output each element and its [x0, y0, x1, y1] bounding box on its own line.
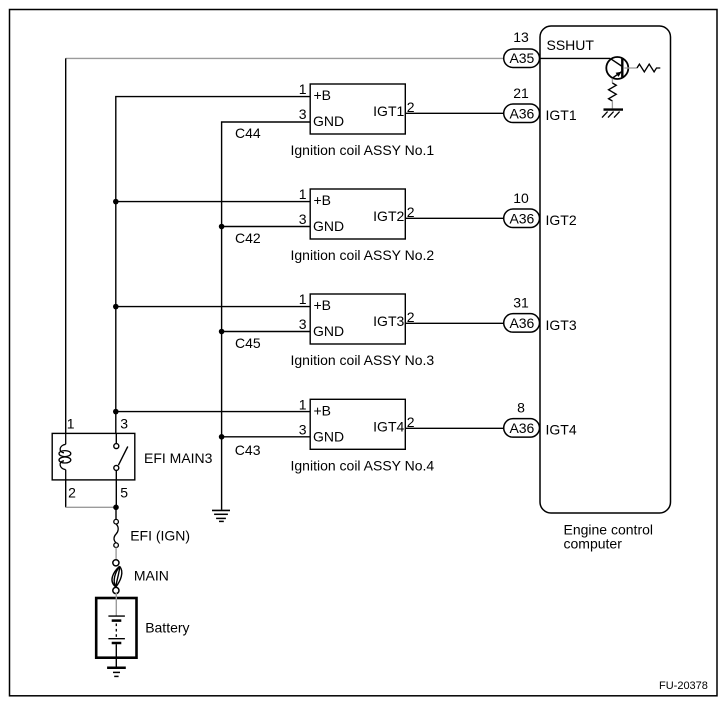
svg-text:Ignition coil ASSY No.4: Ignition coil ASSY No.4 — [291, 457, 435, 473]
wire: +B branch to coil No.3 — [116, 306, 310, 308]
svg-text:IGT4: IGT4 — [373, 419, 404, 435]
svg-text:5: 5 — [120, 485, 128, 501]
connector A36 pin 21 / IGT1 — [504, 104, 540, 123]
svg-text:GND: GND — [313, 428, 344, 444]
svg-text:FU-20378: FU-20378 — [659, 680, 708, 692]
wire: +B bus vertical from relay pin 3 up, turning right to coil No.1 +B — [116, 97, 310, 434]
svg-text:A36: A36 — [509, 210, 534, 226]
connector A36 pin 10 / IGT2 — [504, 209, 540, 228]
svg-text:1: 1 — [67, 416, 75, 432]
svg-text:IGT1: IGT1 — [546, 107, 577, 123]
relay EFI MAIN3 — [52, 433, 135, 480]
svg-text:3: 3 — [120, 416, 128, 432]
svg-text:C43: C43 — [235, 442, 261, 458]
wire: node down to fuse — [115, 507, 117, 519]
svg-text:computer: computer — [564, 536, 623, 552]
node: GND bus junction coil No.4 — [219, 434, 225, 440]
wire: +B branch to coil No.4 — [116, 411, 310, 413]
wire: SSHUT horizontal (gray) from relay pin1 riser to connector A35 — [66, 57, 504, 59]
ignition coil ASSY No.2 box — [235, 186, 434, 263]
node: pin5 junction — [113, 505, 119, 511]
svg-text:C45: C45 — [235, 335, 261, 351]
wire: GND branch to coil No.3 — [222, 331, 311, 333]
svg-text:GND: GND — [313, 113, 344, 129]
svg-text:2: 2 — [407, 204, 415, 220]
ground: GND bus earth ground — [212, 510, 230, 521]
relay coil — [59, 433, 71, 480]
svg-text:Battery: Battery — [145, 620, 189, 636]
svg-text:21: 21 — [513, 85, 529, 101]
svg-text:1: 1 — [299, 291, 307, 307]
svg-text:IGT1: IGT1 — [373, 103, 404, 119]
wire: SSHUT inside ECU to transistor collector — [541, 57, 611, 59]
svg-text:+B: +B — [314, 87, 332, 103]
svg-text:+B: +B — [314, 402, 332, 418]
svg-text:C42: C42 — [235, 230, 261, 246]
wire: +B branch to coil No.2 — [116, 201, 310, 203]
svg-text:2: 2 — [407, 99, 415, 115]
wire: IGT2 from coil No.2 to A36 — [405, 217, 503, 219]
svg-text:IGT2: IGT2 — [373, 208, 404, 224]
svg-text:SSHUT: SSHUT — [547, 37, 595, 53]
resistor at transistor base (horizontal) — [624, 67, 637, 69]
node: GND bus junction coil No.3 — [219, 329, 225, 335]
relay switch — [114, 433, 128, 480]
transistor Q1 — [606, 57, 628, 79]
svg-text:8: 8 — [517, 399, 525, 415]
wire: GND bus vertical, turning right at top to coil No.1 GND — [222, 122, 311, 510]
wire: IGT3 from coil No.3 to A36 — [405, 322, 503, 324]
svg-text:Ignition coil ASSY No.2: Ignition coil ASSY No.2 — [291, 247, 435, 263]
ECU box (Engine control computer) — [540, 26, 671, 513]
ignition coil ASSY No.4 box — [235, 396, 435, 473]
svg-text:Ignition coil ASSY No.1: Ignition coil ASSY No.1 — [291, 142, 435, 158]
connector A36 pin 8 / IGT4 — [504, 419, 540, 438]
wire: IGT4 from coil No.4 to A36 — [405, 427, 503, 429]
connector A36 pin 31 / IGT3 — [504, 314, 540, 333]
battery internal lead (gray) — [115, 593, 117, 616]
wire: GND branch to coil No.2 — [222, 226, 311, 228]
svg-text:Ignition coil ASSY No.3: Ignition coil ASSY No.3 — [291, 352, 435, 368]
svg-text:1: 1 — [299, 396, 307, 412]
node: +B bus junction coil No.2 — [113, 199, 119, 205]
svg-text:13: 13 — [513, 29, 529, 45]
wire: GND branch to coil No.4 — [222, 436, 311, 438]
ignition coil ASSY No.1 box — [235, 81, 434, 158]
svg-text:1: 1 — [299, 81, 307, 97]
battery plates — [108, 616, 125, 668]
svg-text:10: 10 — [513, 190, 529, 206]
svg-text:3: 3 — [299, 106, 307, 122]
svg-text:3: 3 — [299, 316, 307, 332]
connector A35 pin 13 — [504, 49, 540, 67]
svg-text:3: 3 — [299, 421, 307, 437]
svg-text:2: 2 — [68, 485, 76, 501]
svg-text:+B: +B — [314, 297, 332, 313]
node: GND bus junction coil No.2 — [219, 224, 225, 230]
svg-text:A36: A36 — [509, 105, 534, 121]
node: +B bus junction coil No.3 — [113, 304, 119, 310]
svg-text:3: 3 — [299, 211, 307, 227]
svg-text:IGT4: IGT4 — [546, 422, 577, 438]
svg-text:IGT2: IGT2 — [546, 212, 577, 228]
fuse EFI (IGN) — [114, 519, 119, 547]
svg-text:A36: A36 — [509, 420, 534, 436]
wire: vertical riser from relay pin 1 up to SSHUT wire (black) — [65, 58, 67, 433]
svg-text:EFI (IGN): EFI (IGN) — [130, 528, 190, 544]
svg-text:IGT3: IGT3 — [546, 317, 577, 333]
resistor at transistor emitter (vertical) — [611, 79, 613, 84]
svg-text:A36: A36 — [509, 315, 534, 331]
wire: relay pin 5 down to node — [115, 480, 117, 507]
svg-text:A35: A35 — [509, 50, 534, 66]
fusible link MAIN — [112, 560, 122, 594]
node: +B bus junction coil No.4 — [113, 409, 119, 415]
svg-text:IGT3: IGT3 — [373, 313, 404, 329]
svg-text:GND: GND — [313, 323, 344, 339]
transistor emitter arrow — [616, 72, 622, 77]
svg-text:MAIN: MAIN — [134, 568, 169, 584]
wire: fuse to fusible link (gray) — [115, 548, 117, 561]
svg-text:C44: C44 — [235, 125, 261, 141]
ground: battery earth ground — [107, 668, 126, 677]
ignition coil ASSY No.3 box — [235, 291, 434, 368]
battery — [96, 598, 136, 658]
svg-text:EFI MAIN3: EFI MAIN3 — [144, 450, 213, 466]
svg-text:31: 31 — [513, 294, 529, 310]
svg-text:GND: GND — [313, 218, 344, 234]
ground: transistor chassis ground — [602, 110, 623, 118]
svg-text:2: 2 — [407, 309, 415, 325]
svg-text:+B: +B — [314, 192, 332, 208]
wire: relay pin 2 down and right (gray horizontal) to pin5 node — [65, 480, 67, 507]
wire: IGT1 from coil No.1 to A36 — [405, 112, 503, 114]
svg-text:1: 1 — [299, 186, 307, 202]
